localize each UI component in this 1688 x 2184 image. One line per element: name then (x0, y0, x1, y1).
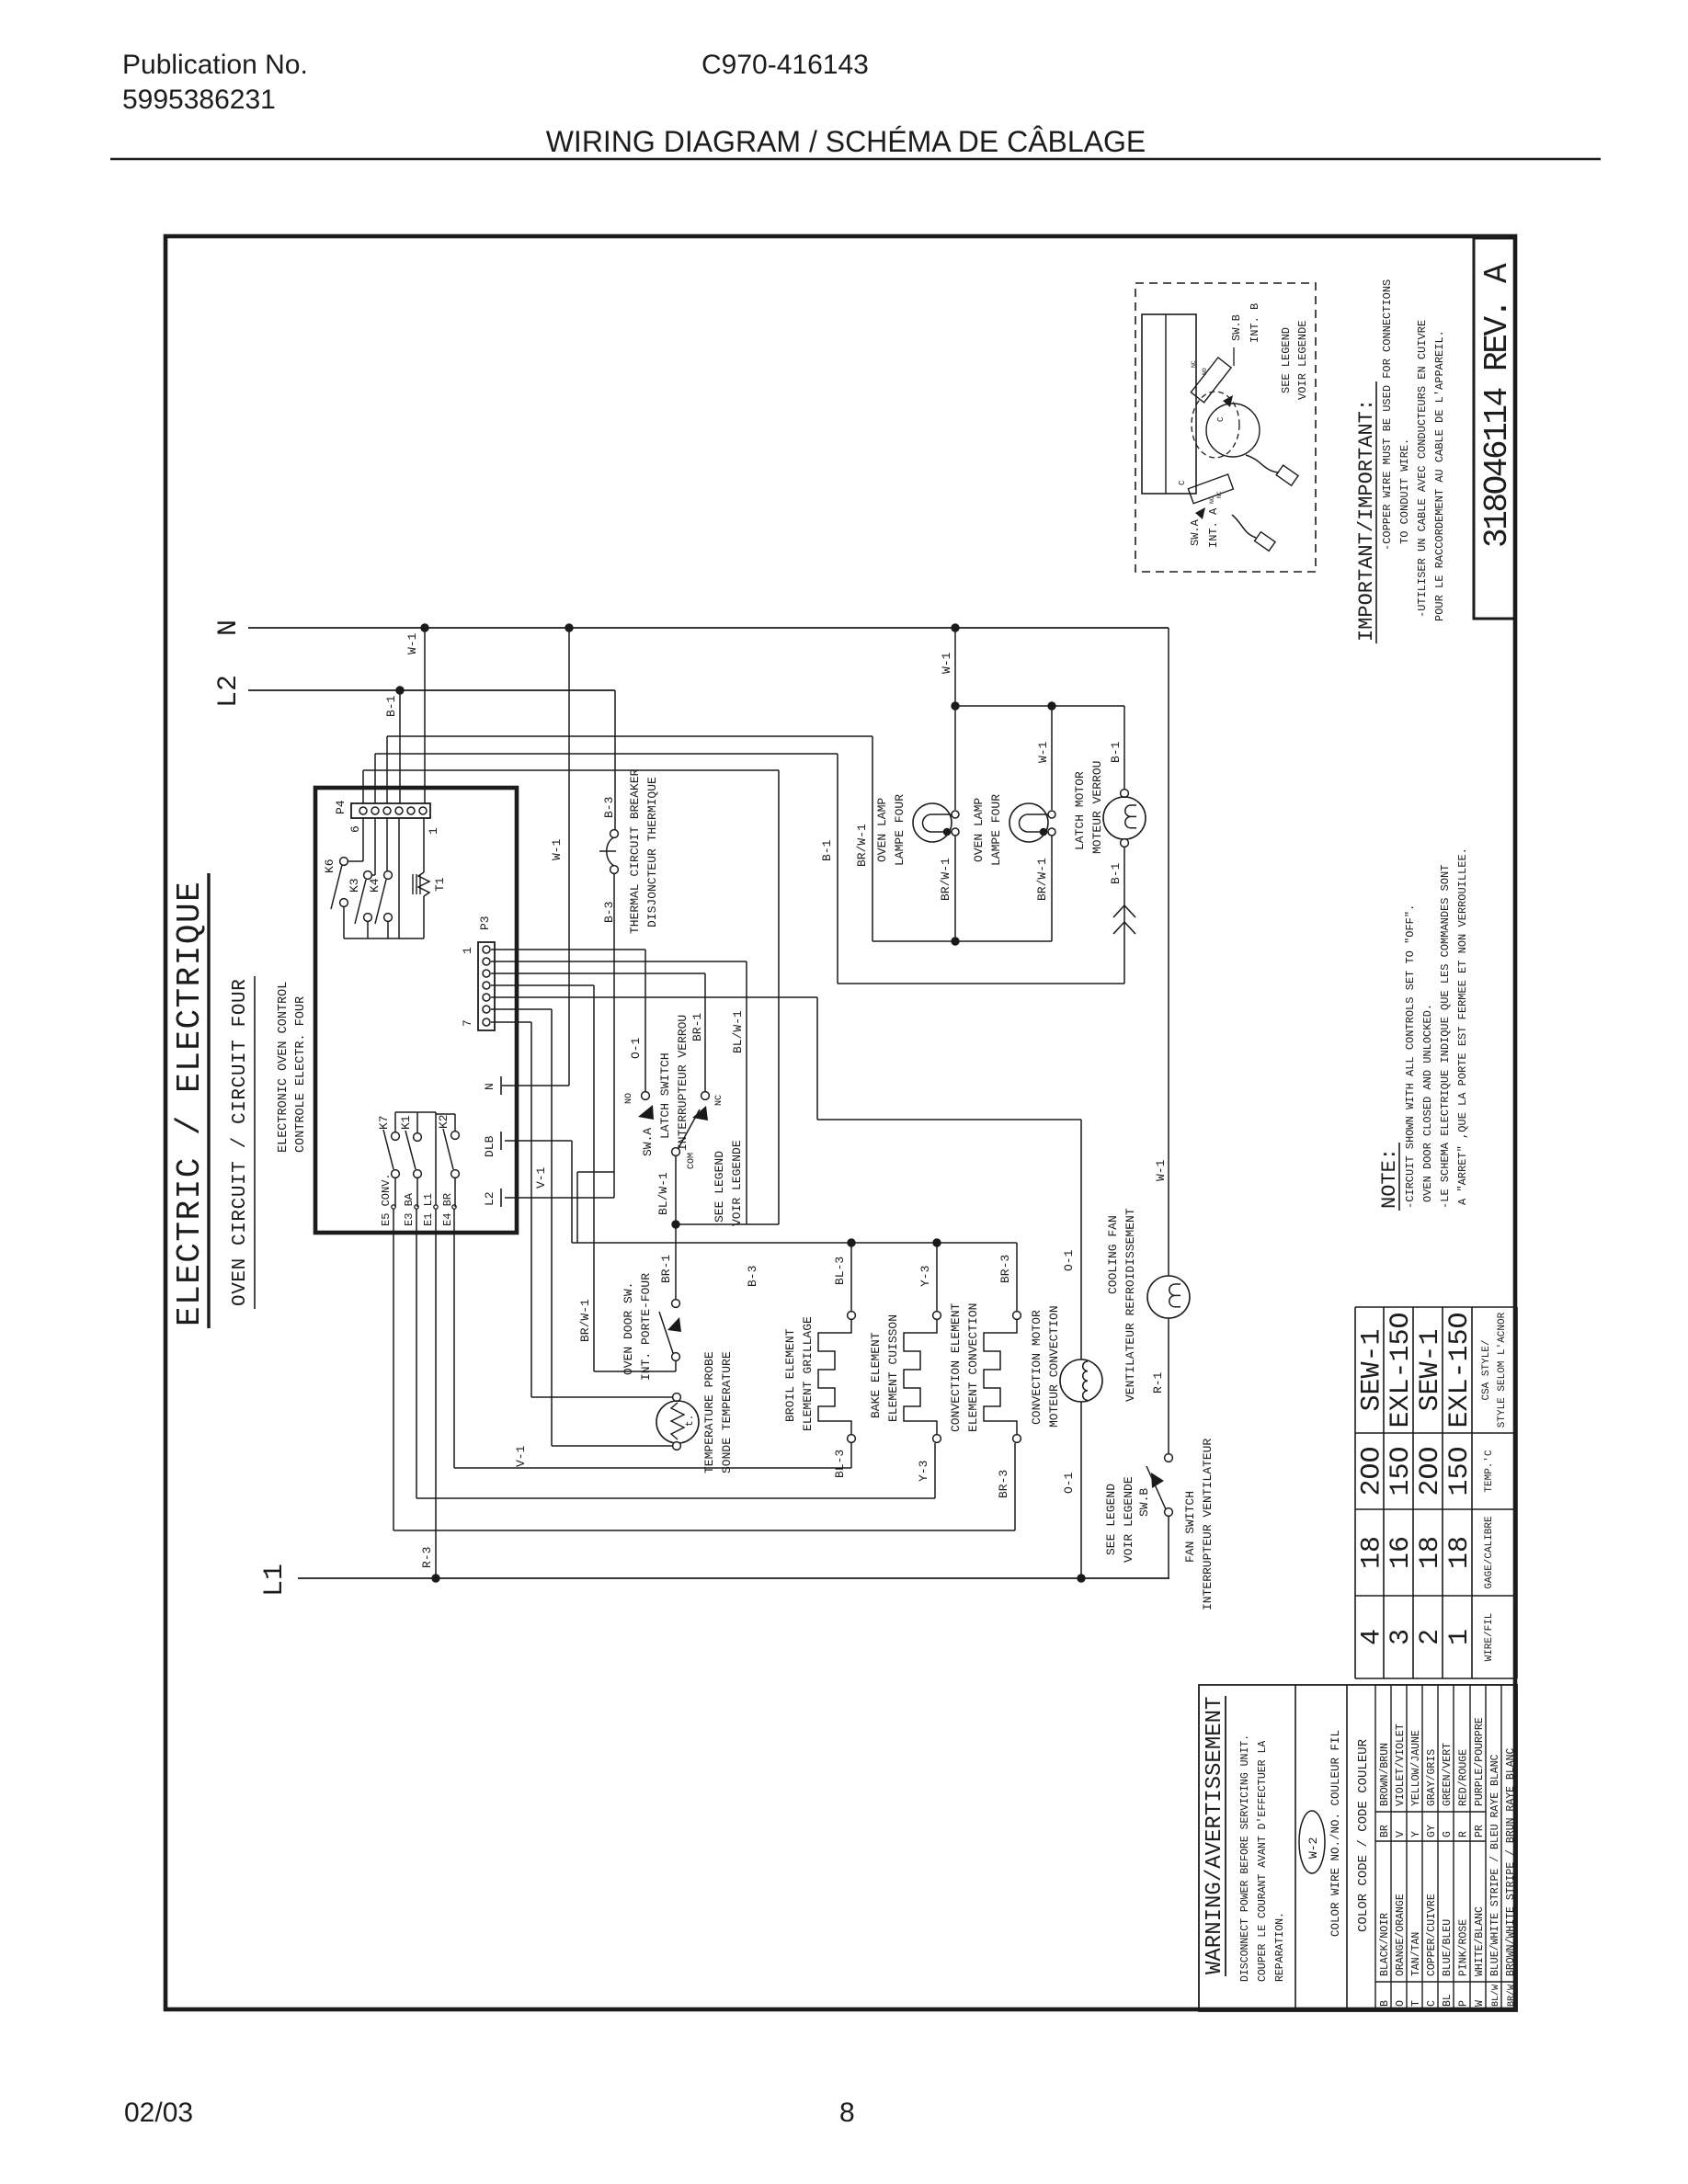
svg-text:N: N (213, 620, 245, 636)
svg-text:1: 1 (461, 947, 474, 954)
svg-text:SEW-1: SEW-1 (1415, 1328, 1446, 1411)
wire E3 BA to bake element (416, 1209, 417, 1498)
svg-text:E4 BR: E4 BR (441, 1193, 454, 1226)
svg-text:5995386231: 5995386231 (122, 85, 276, 115)
wire lamp1 return (954, 836, 956, 941)
svg-text:WHITE/BLANC: WHITE/BLANC (1474, 1906, 1486, 1976)
relay bottom bus wire (344, 938, 424, 939)
svg-text:ELEMENT CONVECTION: ELEMENT CONVECTION (966, 1303, 980, 1432)
wire W-1 from N rail to cooling fan (1168, 628, 1169, 1276)
svg-text:TEMP.'C: TEMP.'C (1484, 1450, 1495, 1493)
svg-text:1: 1 (1444, 1629, 1476, 1645)
svg-text:WIRING DIAGRAM / SCHÉMA DE CÂB: WIRING DIAGRAM / SCHÉMA DE CÂBLAGE (546, 125, 1146, 158)
svg-text:INT. PORTE-FOUR: INT. PORTE-FOUR (639, 1273, 653, 1381)
latch motor (1121, 790, 1129, 798)
svg-text:TO CONDUIT WIRE.: TO CONDUIT WIRE. (1398, 438, 1411, 544)
svg-text:OVEN CIRCUIT / CIRCUIT FOUR: OVEN CIRCUIT / CIRCUIT FOUR (230, 979, 251, 1306)
convection motor (1060, 1359, 1102, 1402)
svg-text:BROWN/BRUN: BROWN/BRUN (1379, 1743, 1391, 1806)
svg-text:B-1: B-1 (1109, 741, 1123, 763)
svg-text:E1 L1: E1 L1 (422, 1193, 435, 1226)
svg-text:RED/ROUGE: RED/ROUGE (1458, 1749, 1470, 1806)
svg-text:OVEN DOOR SW.: OVEN DOOR SW. (622, 1282, 635, 1375)
svg-text:W-1: W-1 (1036, 741, 1050, 763)
rail N wire (248, 627, 1169, 629)
svg-text:NC: NC (1191, 360, 1197, 368)
svg-text:K3: K3 (348, 878, 361, 893)
svg-text:OVEN DOOR CLOSED AND UNLOCKED.: OVEN DOOR CLOSED AND UNLOCKED. (1421, 1004, 1434, 1202)
svg-text:SEE LEGEND: SEE LEGEND (713, 1151, 726, 1223)
warning and color legend box (1199, 1685, 1517, 2011)
svg-text:B-1: B-1 (820, 839, 834, 861)
svg-text:P3: P3 (478, 916, 492, 930)
wire cooling fan to fan switch (1168, 1318, 1169, 1453)
svg-text:R: R (1458, 1831, 1470, 1837)
wire DLB to element supply line (505, 1140, 572, 1142)
resistor T1 (423, 818, 425, 872)
svg-text:INT. A: INT. A (1207, 507, 1220, 548)
svg-text:CONVECTION MOTOR: CONVECTION MOTOR (1030, 1310, 1044, 1425)
svg-text:PR: PR (1474, 1825, 1486, 1837)
svg-text:BR/W-1: BR/W-1 (1035, 858, 1049, 901)
svg-text:SW.A: SW.A (641, 1128, 655, 1156)
svg-text:Y-3: Y-3 (918, 1266, 932, 1287)
svg-text:COOLING FAN: COOLING FAN (1106, 1215, 1120, 1294)
svg-text:BLUE/BLEU: BLUE/BLEU (1442, 1919, 1454, 1976)
svg-text:4: 4 (1357, 1629, 1388, 1645)
svg-text:18: 18 (1415, 1536, 1446, 1569)
relay K6 (362, 818, 364, 861)
svg-text:NO: NO (624, 1093, 634, 1104)
svg-text:NO: NO (1209, 496, 1215, 504)
svg-text:L2: L2 (483, 1191, 496, 1206)
svg-text:K6: K6 (323, 859, 336, 873)
relay K3 (374, 818, 376, 875)
lamp return bus (873, 940, 1052, 942)
svg-text:ELECTRIC / ELECTRIQUE: ELECTRIC / ELECTRIQUE (171, 881, 209, 1326)
svg-text:SEE LEGEND: SEE LEGEND (1280, 327, 1293, 393)
wire gauge table (1355, 1306, 1517, 1308)
svg-text:VOIR LEGENDE: VOIR LEGENDE (1296, 321, 1309, 400)
svg-text:6: 6 (348, 825, 362, 833)
wire P3 pin6 V-1 to probe bottom (491, 1008, 552, 1010)
svg-text:GY: GY (1426, 1825, 1438, 1837)
control terminal N (500, 1076, 502, 1095)
relay K7 (392, 1132, 400, 1141)
convection element (1013, 1312, 1021, 1320)
junction N rail lamp branch (952, 624, 959, 631)
color code table (1374, 1685, 1376, 2011)
wire B-1 from L2 rail to P4 (399, 690, 401, 803)
svg-text:318O46114 REV. A: 318O46114 REV. A (1478, 263, 1516, 548)
svg-text:2: 2 (1415, 1629, 1446, 1645)
svg-text:W: W (1474, 2000, 1486, 2007)
svg-text:COLOR CODE / CODE COULEUR: COLOR CODE / CODE COULEUR (1356, 1738, 1371, 1932)
wire P3 pin2 BL/W-1 to latch COM (491, 961, 747, 962)
terminal E3 BA (415, 1205, 418, 1209)
svg-text:YELLOW/JAUNE: YELLOW/JAUNE (1410, 1730, 1422, 1806)
svg-text:ORANGE/ORANGE: ORANGE/ORANGE (1395, 1894, 1407, 1976)
svg-text:BL/W-1: BL/W-1 (656, 1172, 670, 1215)
wire P4 pin feeds from right - corner wires (362, 770, 364, 803)
svg-text:15O: 15O (1444, 1446, 1476, 1496)
svg-text:3: 3 (1386, 1629, 1417, 1645)
wire latch motor return B-1 (1123, 847, 1125, 984)
svg-text:EXL-15O: EXL-15O (1444, 1312, 1476, 1428)
svg-text:CONTROLE ELECTR. FOUR: CONTROLE ELECTR. FOUR (294, 996, 308, 1153)
svg-text:T: T (1410, 2000, 1422, 2007)
svg-text:STYLE SELOM L'ACNOR: STYLE SELOM L'ACNOR (1497, 1312, 1508, 1428)
wire P3 pin7 V-1 to probe top (491, 1021, 531, 1023)
svg-text:SONDE TEMPERATURE: SONDE TEMPERATURE (720, 1351, 734, 1473)
relay common bus to E1/L1 (395, 1111, 436, 1113)
svg-text:V: V (1395, 1831, 1407, 1837)
wire P3 pin5 to convection motor O-1 (491, 996, 817, 998)
svg-text:B: B (1379, 2000, 1391, 2007)
element supply line B-3 (572, 1242, 1017, 1244)
svg-text:NO: NO (1202, 368, 1208, 375)
svg-text:E3 BA: E3 BA (403, 1192, 416, 1226)
svg-text:15O: 15O (1386, 1446, 1417, 1496)
wire P3 pin1 to latch switch NO (O-1) (491, 949, 645, 950)
svg-text:SEE LEGEND: SEE LEGEND (1104, 1484, 1118, 1555)
svg-text:DLB: DLB (483, 1135, 496, 1157)
svg-text:VENTILATEUR REFROIDISSEMENT: VENTILATEUR REFROIDISSEMENT (1123, 1208, 1137, 1402)
svg-text:-UTILISER UN CABLE AVEC CONDUC: -UTILISER UN CABLE AVEC CONDUCTEURS EN C… (1416, 320, 1429, 618)
svg-text:OVEN LAMP: OVEN LAMP (875, 798, 889, 862)
svg-text:K4: K4 (368, 878, 382, 893)
relay K4 (386, 818, 388, 875)
svg-text:V-1: V-1 (514, 1445, 528, 1467)
svg-text:02/03: 02/03 (124, 2098, 193, 2128)
svg-text:W-1: W-1 (1154, 1159, 1168, 1181)
svg-text:EXL-15O: EXL-15O (1386, 1312, 1417, 1428)
svg-text:COM: COM (687, 1153, 697, 1169)
svg-text:THERMAL CIRCUIT BREAKER: THERMAL CIRCUIT BREAKER (628, 768, 642, 934)
svg-text:BL-3: BL-3 (833, 1257, 847, 1285)
svg-text:CONVECTION ELEMENT: CONVECTION ELEMENT (949, 1302, 963, 1432)
svg-text:8: 8 (839, 2098, 855, 2128)
wire x847 from P4 pin to latch COM line (778, 770, 780, 1224)
svg-text:BLACK/NOIR: BLACK/NOIR (1379, 1913, 1391, 1976)
thermal circuit breaker (610, 830, 619, 838)
svg-text:Publication No.: Publication No. (122, 50, 308, 80)
wire E4 BR to broil element (453, 1209, 455, 1468)
svg-text:COLOR WIRE NO./NO. COULEUR FIL: COLOR WIRE NO./NO. COULEUR FIL (1329, 1730, 1342, 1937)
svg-text:B-1: B-1 (1109, 862, 1123, 884)
svg-text:R-1: R-1 (1151, 1371, 1165, 1393)
svg-text:W-2: W-2 (1306, 1837, 1320, 1859)
terminal E5 CONV. (392, 1205, 395, 1209)
broil element (848, 1312, 856, 1320)
svg-text:W-1: W-1 (405, 632, 419, 654)
svg-text:BR-1: BR-1 (659, 1255, 673, 1283)
svg-text:PINK/ROSE: PINK/ROSE (1458, 1919, 1470, 1976)
svg-text:B-3: B-3 (602, 797, 616, 818)
svg-text:OVEN LAMP: OVEN LAMP (972, 798, 986, 862)
wire W-1 lamp branch (954, 628, 956, 706)
svg-text:L1: L1 (259, 1564, 291, 1597)
svg-text:C: C (1216, 416, 1226, 422)
svg-text:O-1: O-1 (1062, 1249, 1076, 1271)
svg-text:COPPER/CUIVRE: COPPER/CUIVRE (1426, 1894, 1438, 1976)
wire bake feed Y-3 (936, 1243, 938, 1312)
svg-text:B-3: B-3 (746, 1266, 759, 1287)
svg-text:-CIRCUIT SHOWN WITH ALL CONTRO: -CIRCUIT SHOWN WITH ALL CONTROLS SET TO … (1404, 904, 1417, 1209)
svg-text:WIRE/FIL: WIRE/FIL (1484, 1613, 1495, 1662)
junction broil feed (848, 1239, 855, 1246)
svg-text:FAN SWITCH: FAN SWITCH (1183, 1491, 1197, 1563)
svg-text:16: 16 (1386, 1536, 1417, 1569)
rail L2 wire (248, 689, 615, 691)
svg-text:ELECTRONIC OVEN CONTROL: ELECTRONIC OVEN CONTROL (277, 982, 291, 1153)
svg-text:ELEMENT CUISSON: ELEMENT CUISSON (886, 1314, 900, 1422)
wire door switch return via P3 pin4 (675, 1361, 677, 1371)
svg-text:E5 CONV.: E5 CONV. (380, 1173, 393, 1226)
svg-text:O: O (1395, 2000, 1407, 2007)
wire lamp1 feed (954, 706, 956, 810)
wire W-1 down to N terminal (568, 628, 570, 1086)
svg-text:BR-3: BR-3 (998, 1255, 1012, 1283)
oven door switch (672, 1300, 680, 1308)
wire lamp2 return (1051, 836, 1053, 941)
svg-text:1: 1 (427, 827, 440, 835)
svg-text:BL/W-1: BL/W-1 (731, 1010, 745, 1053)
W-2 ellipse (1299, 1811, 1325, 1873)
control terminal L2 (500, 1189, 502, 1207)
svg-text:18: 18 (1357, 1536, 1388, 1569)
wire BR/W-1 lamp return to P4 (872, 736, 873, 941)
svg-text:W-1: W-1 (940, 652, 953, 674)
svg-text:GRAY/GRIS: GRAY/GRIS (1426, 1749, 1438, 1806)
svg-text:BR-3: BR-3 (997, 1470, 1010, 1498)
svg-text:O-1: O-1 (629, 1037, 643, 1059)
connector P4 (351, 803, 430, 818)
svg-text:BROWN/WHITE STRIPE / BRUN RAYE: BROWN/WHITE STRIPE / BRUN RAYE BLANC (1505, 1747, 1517, 1976)
svg-text:GAGE/CALIBRE: GAGE/CALIBRE (1484, 1516, 1495, 1589)
svg-text:G: G (1442, 1831, 1454, 1837)
svg-text:C970-416143: C970-416143 (701, 50, 869, 80)
svg-text:t.: t. (685, 1415, 696, 1427)
rail L1 wire (298, 1577, 1169, 1579)
terminal E1 L1 (434, 1205, 438, 1209)
svg-text:DISJONCTEUR THERMIQUE: DISJONCTEUR THERMIQUE (645, 777, 659, 927)
svg-text:BR/W-1: BR/W-1 (939, 858, 952, 901)
junction N / W-1 to control N terminal (565, 624, 573, 631)
wire latch COM to oven door switch (675, 1224, 677, 1299)
latch switch SW.A (642, 1092, 650, 1100)
svg-text:GREEN/VERT: GREEN/VERT (1442, 1743, 1454, 1806)
svg-text:INTERRUPTEUR VENTILATEUR: INTERRUPTEUR VENTILATEUR (1201, 1439, 1215, 1610)
wire L2 rail drop to thermal breaker (614, 690, 616, 830)
svg-text:BR/W-1: BR/W-1 (855, 824, 869, 867)
svg-text:BR/W-1: BR/W-1 (578, 1299, 592, 1342)
svg-text:TEMPERATURE PROBE: TEMPERATURE PROBE (702, 1351, 716, 1473)
svg-text:BLUE/WHITE STRIPE / BLEU RAYE: BLUE/WHITE STRIPE / BLEU RAYE BLANC (1489, 1754, 1501, 1976)
wire L2 terminal to breaker branch (505, 1197, 614, 1199)
svg-text:O-1: O-1 (1062, 1472, 1076, 1494)
svg-text:MOTEUR VERROU: MOTEUR VERROU (1090, 761, 1104, 854)
terminal E4 BR (452, 1205, 456, 1209)
svg-text:P4: P4 (334, 800, 348, 814)
svg-text:NC: NC (714, 1095, 724, 1106)
svg-text:A "ARRET" ,QUE LA PORTE EST FE: A "ARRET" ,QUE LA PORTE EST FERMEE ET NO… (1456, 847, 1469, 1205)
svg-text:K1: K1 (399, 1115, 413, 1130)
wire convection element feed BR-3 (1016, 1243, 1018, 1312)
control terminal DLB (500, 1132, 502, 1150)
oven lamp 2 (1009, 803, 1048, 842)
wire fan switch to L1 rail (1168, 1517, 1169, 1578)
drawing border frame (165, 236, 1515, 2009)
inset microswitch A (1188, 474, 1233, 504)
svg-text:BROIL ELEMENT: BROIL ELEMENT (783, 1328, 797, 1422)
svg-text:VOIR LEGENDE: VOIR LEGENDE (1122, 1476, 1135, 1563)
svg-text:K7: K7 (377, 1115, 391, 1130)
inset oven frame bracket (1142, 314, 1196, 494)
svg-text:INTERRUPTEUR VERROU: INTERRUPTEUR VERROU (676, 1015, 690, 1151)
svg-text:L2: L2 (213, 675, 245, 708)
svg-text:7: 7 (461, 1019, 474, 1027)
inset cable to connector A (1232, 515, 1256, 538)
wire breaker output B-3 (613, 873, 615, 1172)
wire E5 CONV to convection element (O-1 path) (393, 1209, 394, 1530)
bake element (933, 1312, 941, 1320)
svg-text:C: C (1178, 480, 1187, 485)
inset microswitch B (1191, 358, 1231, 403)
svg-text:2OO: 2OO (1357, 1446, 1388, 1496)
svg-text:BL: BL (1442, 1994, 1454, 2007)
svg-text:POUR LE RACCORDEMENT AU CABLE: POUR LE RACCORDEMENT AU CABLE DE L'APPAR… (1433, 330, 1446, 621)
title block box (1474, 238, 1515, 619)
svg-text:B-1: B-1 (384, 695, 398, 717)
svg-text:PURPLE/POURPRE: PURPLE/POURPRE (1474, 1717, 1486, 1806)
wire convection motor to L1 (1080, 1402, 1082, 1578)
svg-text:COUPER LE COURANT AVANT D'EFFE: COUPER LE COURANT AVANT D'EFFECTUER LA (1257, 1741, 1269, 1982)
svg-text:2OO: 2OO (1415, 1446, 1446, 1496)
svg-text:LATCH MOTOR: LATCH MOTOR (1073, 771, 1087, 850)
wire P4 pin3 to relay bus (398, 818, 400, 938)
svg-text:LATCH SWITCH: LATCH SWITCH (658, 1052, 672, 1139)
lamp distribution wire (955, 705, 1124, 707)
connector P3 (478, 942, 495, 1030)
svg-text:R-3: R-3 (420, 1547, 434, 1568)
inset latch motor dashed outline (1192, 392, 1239, 458)
svg-text:BR: BR (1379, 1825, 1391, 1837)
relay K2 (451, 1132, 460, 1140)
svg-text:BL-3: BL-3 (833, 1450, 847, 1478)
inline connector chevrons (1113, 905, 1135, 917)
latch assembly inset dashed box (1135, 283, 1316, 572)
svg-text:IMPORTANT/IMPORTANT:: IMPORTANT/IMPORTANT: (1355, 399, 1378, 642)
svg-text:TAN/TAN: TAN/TAN (1410, 1932, 1422, 1976)
svg-text:REPARATION.: REPARATION. (1274, 1912, 1286, 1982)
svg-text:NC: NC (1216, 491, 1223, 498)
svg-text:T1: T1 (433, 877, 447, 892)
svg-text:WARNING/AVERTISSEMENT: WARNING/AVERTISSEMENT (1203, 1697, 1227, 1974)
svg-text:V-1: V-1 (534, 1166, 548, 1189)
svg-text:BR-1: BR-1 (690, 1013, 704, 1041)
junction N / W-1 to P4 (421, 624, 428, 631)
wire latch COM down (675, 1156, 677, 1224)
cooling fan (1147, 1276, 1190, 1318)
svg-text:VOIR LEGENDE: VOIR LEGENDE (730, 1140, 744, 1226)
svg-text:Y: Y (1410, 1831, 1422, 1837)
svg-text:DISCONNECT POWER BEFORE SERVIC: DISCONNECT POWER BEFORE SERVICING UNIT. (1239, 1735, 1251, 1982)
svg-text:BL/W: BL/W (1490, 1985, 1501, 2007)
svg-text:SW.A: SW.A (1189, 518, 1202, 546)
svg-text:-LE SCHEMA ELECTRIQUE INDIQUE: -LE SCHEMA ELECTRIQUE INDIQUE QUE LES CO… (1439, 865, 1452, 1209)
svg-text:Y-3: Y-3 (917, 1461, 930, 1482)
wire B-1 return to P4 (1123, 983, 1125, 984)
svg-text:LAMPE FOUR: LAMPE FOUR (989, 794, 1003, 866)
svg-text:P: P (1458, 2000, 1470, 2007)
inset cable to connector B (1246, 455, 1278, 472)
relay K1 (414, 1133, 422, 1142)
svg-text:W-1: W-1 (550, 838, 564, 860)
svg-text:N: N (483, 1083, 496, 1090)
title rule (110, 158, 1601, 161)
svg-text:-COPPER WIRE MUST BE USED FOR: -COPPER WIRE MUST BE USED FOR CONNECTION… (1381, 279, 1394, 551)
svg-text:BAKE ELEMENT: BAKE ELEMENT (869, 1332, 883, 1418)
svg-text:CSA STYLE/: CSA STYLE/ (1481, 1339, 1492, 1400)
svg-text:ELEMENT GRILLAGE: ELEMENT GRILLAGE (801, 1316, 815, 1431)
svg-text:LAMPE FOUR: LAMPE FOUR (893, 794, 907, 866)
temperature probe (673, 1393, 681, 1402)
svg-text:18: 18 (1444, 1536, 1476, 1569)
wire P3 pin3 BR-1 to latch NC (491, 973, 705, 974)
wire broil feed BL-3 (850, 1243, 852, 1312)
svg-text:SW.B: SW.B (1230, 314, 1243, 341)
svg-text:BR/W: BR/W (1506, 1985, 1517, 2007)
svg-text:VIOLET/VIOLET: VIOLET/VIOLET (1395, 1723, 1407, 1806)
fan switch SW.B (1165, 1454, 1173, 1462)
svg-text:SEW-1: SEW-1 (1357, 1328, 1388, 1411)
svg-text:MOTEUR CONVECTION: MOTEUR CONVECTION (1047, 1305, 1061, 1428)
svg-text:NOTE:: NOTE: (1378, 1148, 1401, 1209)
svg-text:C: C (1426, 2000, 1438, 2007)
svg-text:INT. B: INT. B (1249, 303, 1261, 343)
junction bake feed (933, 1239, 941, 1246)
junction L2 / B-1 to P4 (396, 687, 404, 694)
oven lamp 1 (913, 803, 952, 842)
svg-text:K2: K2 (437, 1114, 451, 1129)
wire W-1 from N rail to P4 pin 6 (424, 628, 426, 803)
inset motor circle (1206, 404, 1260, 457)
control box ELECTRONIC OVEN CONTROL (315, 788, 517, 1233)
svg-text:SW.B: SW.B (1137, 1488, 1151, 1517)
wire E1 L1 / R-3 to L1 rail (435, 1209, 437, 1578)
